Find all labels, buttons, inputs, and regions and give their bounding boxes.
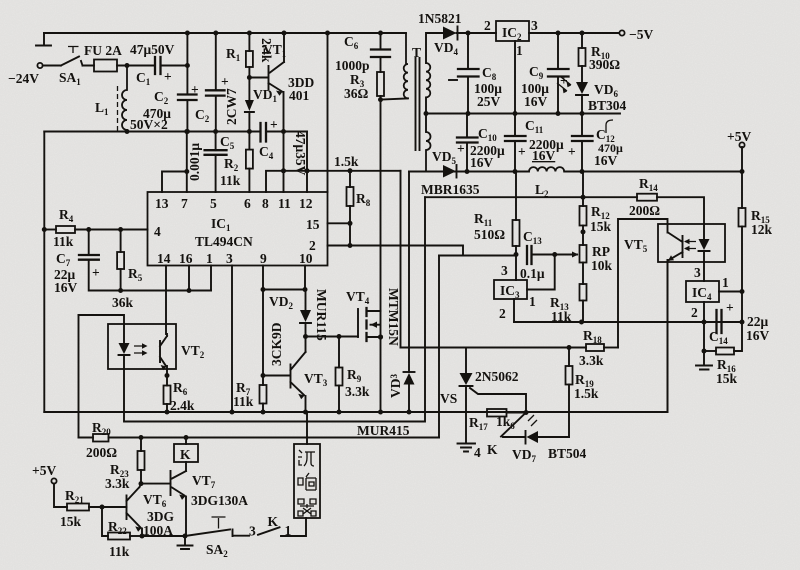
svg-text:2N5062: 2N5062 (475, 369, 519, 384)
wire pin15 stub (328, 222, 351, 224)
wire pin9 branch down (262, 290, 264, 376)
svg-text:47μ50V: 47μ50V (130, 42, 175, 57)
svg-text:1.5k: 1.5k (574, 386, 599, 401)
svg-text:3CK9D: 3CK9D (269, 322, 284, 366)
resistor R4 11k pin4 line (42, 227, 47, 232)
wire pins 8/11/12 node (266, 132, 401, 193)
capacitor C10 2200u16V (466, 114, 468, 172)
wire IC3 pin2 to fb line (513, 299, 515, 322)
svg-text:1: 1 (206, 251, 213, 266)
wire bottom rail (44, 411, 667, 413)
node -5V terminal (619, 30, 624, 35)
svg-text:3.3k: 3.3k (579, 353, 604, 368)
resistor R6 2.4k (164, 386, 171, 405)
potentiometer RP 10k (580, 245, 587, 263)
switch SA2 (185, 530, 230, 537)
wire ground bus left (44, 131, 260, 133)
resistor R12 15k (582, 172, 584, 207)
resistor R13 11k (580, 284, 587, 301)
wire pin2 feedback line (328, 246, 464, 256)
wire VCC drop from top bus (325, 31, 330, 36)
LED inside VT5 (699, 239, 710, 250)
svg-text:4: 4 (154, 224, 161, 239)
svg-text:50V×2: 50V×2 (130, 117, 168, 132)
svg-text:3: 3 (694, 265, 701, 280)
svg-text:15k: 15k (60, 514, 82, 529)
svg-text:14: 14 (157, 251, 171, 266)
transistor VT3 3CK9D (263, 352, 306, 395)
wire driver line to R18 (401, 347, 587, 349)
svg-text:16V: 16V (524, 94, 548, 109)
resistor R20 200ohm (93, 434, 109, 442)
svg-text:3DG130A: 3DG130A (191, 493, 248, 508)
svg-text:2: 2 (484, 18, 491, 33)
thyristor VS 2N5062 (465, 348, 467, 374)
resistor R5 36k (118, 227, 123, 232)
wire VT2 LED cathode line (124, 197, 425, 421)
wire VT5 emitter drop (667, 260, 669, 412)
capacitor C12 470u16V (581, 114, 583, 172)
arrows VT2 coupling (134, 346, 145, 353)
svg-text:200Ω: 200Ω (86, 445, 117, 460)
inductor L1 (122, 66, 127, 132)
transformer T core (416, 58, 420, 150)
svg-text:3: 3 (226, 251, 233, 266)
resistor R23 3.3k (140, 438, 142, 452)
ground under VS (458, 444, 476, 452)
wire pin7 ground drop (186, 132, 188, 193)
svg-text:11k: 11k (53, 234, 74, 249)
capacitor C4 47u35V (261, 123, 267, 142)
svg-text:MUR115: MUR115 (314, 289, 329, 341)
wire top -24V bus (44, 32, 406, 34)
svg-text:12k: 12k (751, 222, 773, 237)
phototransistor inside VT2 (160, 334, 167, 366)
resistor R18 3.3k (586, 344, 604, 351)
switch K contact (501, 413, 526, 437)
wire gate node line (306, 336, 359, 338)
svg-text:MBR1635: MBR1635 (421, 182, 480, 197)
resistor R19 1.5k (568, 348, 570, 367)
svg-text:3.3k: 3.3k (345, 384, 370, 399)
LED VD6 BT304 (576, 82, 588, 94)
svg-text:+5V: +5V (727, 129, 751, 144)
resistor R7 11k (261, 373, 266, 378)
LED inside VT2 (119, 343, 130, 354)
phototransistor inside VT5 (668, 233, 683, 261)
ground under VT7 (178, 536, 193, 549)
wire R20 line (79, 437, 94, 439)
capacitor C11 2200u16V (514, 114, 516, 172)
svg-text:RP: RP (592, 244, 610, 259)
svg-text:MUR415: MUR415 (357, 423, 410, 438)
svg-text:8: 8 (262, 196, 269, 211)
wire VT2 LED feed (79, 315, 125, 343)
wire drain line down (380, 100, 382, 311)
optocoupler VT2 (108, 324, 176, 369)
svg-text:11k: 11k (220, 173, 241, 188)
transformer T secondary upper (426, 33, 443, 63)
svg-text:+: + (726, 300, 734, 315)
svg-text:0.1μ: 0.1μ (520, 266, 545, 281)
svg-text:+: + (221, 74, 229, 89)
switch SA1 (43, 57, 94, 66)
wire IC4 pin1 (719, 291, 742, 293)
resistor R14 200ohm (425, 196, 637, 198)
svg-text:11k: 11k (109, 544, 130, 559)
capacitor C6 1000p snubber (378, 31, 383, 36)
transformer T secondary lower (426, 132, 431, 172)
wire mid ground bus (426, 113, 620, 115)
wire feedback line y=322 (514, 321, 742, 323)
svg-text:2: 2 (499, 306, 506, 321)
svg-text:1: 1 (285, 523, 292, 538)
svg-text:+: + (457, 141, 465, 156)
svg-text:1N5821: 1N5821 (418, 11, 462, 26)
svg-text:15k: 15k (716, 371, 738, 386)
buzzer char xiang (298, 473, 316, 490)
resistor R11 510ohm (515, 172, 517, 221)
svg-text:2.4k: 2.4k (170, 398, 195, 413)
wire IC2 out to -5V (529, 32, 619, 34)
svg-text:2CW7: 2CW7 (224, 88, 239, 125)
capacitor C5 0.001u on pin5 (215, 132, 217, 193)
transistor VT6 3DG100A (127, 484, 142, 528)
svg-text:15: 15 (306, 217, 320, 232)
transformer T primary (404, 33, 408, 98)
buzzer char xun (298, 450, 315, 466)
svg-text:1: 1 (722, 275, 729, 290)
wire driver node vertical (400, 171, 402, 348)
svg-text:16V: 16V (746, 328, 770, 343)
svg-text:3DG: 3DG (147, 509, 174, 524)
svg-text:K: K (487, 442, 498, 457)
svg-text:6: 6 (244, 196, 251, 211)
capacitor C1 47u50V (155, 57, 161, 74)
capacitor C14 22u16V (717, 310, 722, 333)
resistor R3 36ohm (377, 72, 384, 96)
svg-text:3: 3 (501, 263, 508, 278)
wire pin3 drop (231, 266, 233, 413)
svg-text:0.001μ: 0.001μ (187, 143, 202, 181)
chassis stub at bus left end (36, 33, 51, 46)
svg-text:11k: 11k (551, 309, 572, 324)
wire pin2 net to IC3 node (439, 255, 516, 257)
wire R20 feed vertical (78, 315, 80, 438)
buzzer box (306, 412, 308, 444)
svg-text:16V: 16V (470, 155, 494, 170)
capacitor C8 100u25V (467, 33, 469, 114)
wire +5V rail with L2 (426, 171, 529, 173)
svg-text:3: 3 (249, 524, 256, 539)
wire emitter corner (667, 260, 669, 412)
svg-text:+: + (92, 265, 100, 280)
wire pin14 drop to opto (165, 266, 167, 335)
capacitor C2b 470u (215, 33, 217, 90)
svg-text:FU 2A: FU 2A (84, 43, 122, 58)
resistor R22 11k (102, 507, 108, 536)
svg-text:1.5k: 1.5k (334, 154, 359, 169)
svg-text:13: 13 (155, 196, 169, 211)
fuse FU 2A (94, 60, 117, 72)
capacitor C7 22u16V (86, 227, 91, 232)
capacitor C9 100u16V (557, 33, 559, 114)
buzzer char qi (298, 499, 316, 516)
capacitor C2a 470u (178, 95, 197, 101)
svg-text:VS: VS (440, 391, 457, 406)
wire VT5 collector (618, 219, 668, 348)
wire pins 9+10 strap (263, 266, 305, 290)
resistor R21 15k (67, 504, 89, 511)
transistor VT1 3DD401 (282, 31, 287, 36)
svg-text:16V: 16V (594, 153, 618, 168)
svg-text:9: 9 (260, 251, 267, 266)
svg-text:7: 7 (181, 196, 188, 211)
svg-text:16V: 16V (54, 280, 78, 295)
svg-text:+: + (518, 144, 526, 159)
svg-text:5: 5 (210, 196, 217, 211)
zener VD1 2CW7 (245, 100, 254, 111)
resistor R10 390ohm (581, 33, 583, 48)
svg-text:390Ω: 390Ω (589, 57, 620, 72)
svg-text:25V: 25V (477, 94, 501, 109)
svg-text:+: + (568, 144, 576, 159)
node -24V input terminal (37, 63, 42, 68)
svg-text:510Ω: 510Ω (474, 227, 505, 242)
svg-text:+: + (191, 82, 199, 97)
svg-text:200Ω: 200Ω (629, 203, 660, 218)
svg-text:12: 12 (299, 196, 313, 211)
svg-text:10: 10 (299, 251, 313, 266)
wire IC2 pin1 ground (514, 41, 516, 114)
svg-text:K: K (268, 514, 279, 529)
diode VD7 BT504 (503, 431, 526, 444)
svg-text:TL494CN: TL494CN (195, 234, 253, 249)
svg-text:16: 16 (179, 251, 193, 266)
svg-text:3: 3 (531, 18, 538, 33)
svg-text:1: 1 (529, 294, 536, 309)
node L1 bottom (125, 129, 130, 134)
resistor R15 12k (741, 172, 743, 209)
resistor R17 1k (487, 409, 507, 417)
capacitor C13 0.1u (527, 246, 532, 264)
IC U2 regulator IC2 (496, 21, 529, 41)
svg-text:1: 1 (516, 43, 523, 58)
resistor R1 2.4k (247, 31, 252, 36)
svg-text:11k: 11k (233, 394, 254, 409)
MOSFET VT4 MTM15N (357, 309, 359, 337)
node R1/VD1 base tap (247, 75, 252, 80)
svg-text:22μ: 22μ (747, 314, 769, 329)
svg-text:BT304: BT304 (588, 98, 627, 113)
svg-text:1000p: 1000p (335, 58, 370, 73)
svg-text:+: + (164, 69, 172, 84)
svg-text:401: 401 (289, 88, 310, 103)
resistor R8 1.5k (347, 187, 354, 206)
svg-text:T: T (412, 45, 421, 60)
svg-text:36Ω: 36Ω (344, 86, 369, 101)
wire VD3 branch (409, 171, 426, 173)
wire VT6-VT7 base link (141, 483, 171, 485)
wire emitter line (142, 535, 185, 537)
svg-text:4: 4 (474, 445, 481, 460)
wire pin13 to ground line (162, 172, 187, 193)
svg-text:3.3k: 3.3k (105, 476, 130, 491)
svg-text:BT504: BT504 (548, 446, 587, 461)
resistor R16 15k (703, 322, 705, 351)
wire pin1 drop (210, 266, 212, 291)
resistor R2 11k on pin6 (248, 132, 250, 193)
svg-text:11: 11 (278, 196, 291, 211)
diode VD3 MUR415 (404, 371, 415, 373)
IC U3 IC3 (515, 255, 517, 281)
svg-text:−5V: −5V (629, 27, 653, 42)
svg-text:+: + (270, 117, 278, 132)
svg-text:−24V: −24V (8, 71, 39, 86)
wire pin16 drop (188, 266, 190, 291)
arrows VT5 coupling (685, 242, 696, 249)
node junction fuse/L1 (125, 63, 130, 68)
relay coil K box (185, 438, 187, 445)
svg-text:2: 2 (691, 305, 698, 320)
ground under R16 (696, 351, 712, 370)
transistor VT7 3DG130A (171, 471, 187, 496)
IC U1 TL494CN box (148, 192, 328, 266)
svg-text:+5V: +5V (32, 463, 56, 478)
optocoupler VT5 (658, 224, 725, 262)
svg-text:10k: 10k (591, 258, 613, 273)
resistor R9 3.3k (338, 337, 340, 368)
diode VD2 MUR115 (305, 290, 307, 311)
svg-text:15k: 15k (590, 219, 612, 234)
svg-text:K: K (180, 447, 191, 462)
wire C1 right to top bus (186, 33, 188, 95)
wire left vertical rail (43, 132, 45, 413)
svg-text:16V: 16V (532, 148, 556, 163)
svg-text:MTM15N: MTM15N (386, 288, 401, 346)
node +5V terminal (740, 169, 745, 174)
svg-text:36k: 36k (112, 295, 134, 310)
